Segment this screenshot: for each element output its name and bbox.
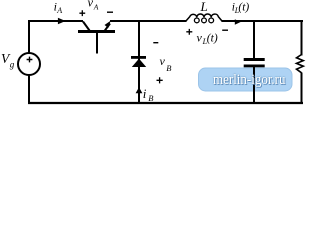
current arrow iB bbox=[136, 87, 143, 93]
svg-text:i: i bbox=[143, 86, 147, 101]
label minus of vB bbox=[153, 42, 158, 44]
source plus sign bbox=[27, 57, 33, 63]
transistor Q1 collector lead bbox=[83, 22, 90, 31]
wire top right segment bbox=[222, 20, 304, 22]
wire top middle segment bbox=[110, 20, 187, 22]
capacitor C top plate bbox=[244, 58, 265, 61]
watermark merlin-igor.ru box bbox=[199, 68, 293, 91]
wire left branch lower bbox=[28, 75, 30, 104]
inductor L loop 1 bbox=[194, 18, 199, 23]
label minus of vA bbox=[107, 11, 113, 13]
label + of vA bbox=[79, 10, 85, 16]
svg-text:v: v bbox=[88, 0, 94, 10]
svg-text:A: A bbox=[56, 6, 62, 15]
svg-text:g: g bbox=[10, 60, 15, 70]
label + of vL bbox=[186, 29, 192, 35]
svg-text:B: B bbox=[148, 93, 153, 103]
diode D1 cathode bar bbox=[131, 56, 146, 59]
transistor Q1 base lead bbox=[96, 33, 98, 54]
diode D1 triangle bbox=[132, 59, 146, 67]
wire capacitor branch bbox=[253, 20, 255, 59]
label minus of vL bbox=[222, 29, 228, 31]
label + of vB bbox=[157, 77, 163, 83]
svg-text:A: A bbox=[93, 2, 99, 11]
svg-text:merlin-igor.ru: merlin-igor.ru bbox=[213, 71, 286, 88]
resistor R zigzag bbox=[297, 55, 304, 73]
wire top left segment bbox=[28, 20, 83, 22]
svg-text:(t): (t) bbox=[238, 2, 249, 14]
wire left branch upper bbox=[28, 20, 30, 53]
svg-text:B: B bbox=[166, 63, 171, 73]
svg-text:v: v bbox=[197, 31, 203, 45]
wire bottom bbox=[28, 102, 303, 104]
inductor L loop 2 bbox=[202, 18, 207, 23]
source Vg circle bbox=[18, 53, 40, 75]
inductor L coil bbox=[186, 14, 223, 22]
inductor L loop 3 bbox=[209, 18, 214, 23]
svg-text:v: v bbox=[160, 54, 166, 68]
current arrow iA bbox=[58, 18, 66, 25]
wire diode branch bbox=[138, 20, 140, 104]
svg-text:(t): (t) bbox=[207, 33, 218, 45]
transistor Q1 base bar bbox=[78, 30, 115, 33]
capacitor C bottom plate bbox=[244, 65, 265, 68]
current arrow iL bbox=[235, 19, 241, 25]
transistor Q1 emitter arrow bbox=[105, 21, 111, 28]
svg-text:L: L bbox=[200, 0, 208, 14]
wire right branch upper bbox=[301, 20, 303, 56]
transistor Q1 emitter lead bbox=[105, 24, 111, 32]
wire right branch lower bbox=[301, 73, 303, 105]
